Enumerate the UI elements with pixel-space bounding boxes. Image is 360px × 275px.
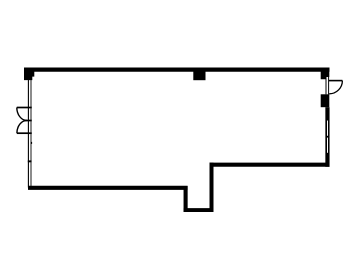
wire: top wall (24, 67, 330, 71)
window: right wall glazing gap lower (327, 138, 328, 153)
window: right wall glazing gap upper (327, 121, 328, 136)
door: right door swing arc (329, 81, 342, 94)
door: right door jamb outer line (325, 77, 327, 95)
door: left double door top leaf (17, 107, 32, 109)
node: right middle column (321, 94, 330, 107)
door: left double door lower swing arc (17, 120, 27, 133)
wire: left curtain wall inner line (30, 80, 32, 188)
node: left wall small mullion tick (31, 142, 32, 144)
wire: notch left vertical wall (184, 186, 188, 212)
door: left double door upper swing arc (17, 108, 27, 121)
wire: notch right vertical wall (210, 163, 214, 212)
door: left double door bottom leaf (17, 132, 32, 134)
wire: bottom wall of right section (210, 163, 330, 167)
wire: right wall (325, 107, 329, 167)
wire: notch bottom wall (184, 208, 214, 212)
node: top-middle column (193, 68, 205, 80)
door: right door jamb inner line (328, 77, 330, 95)
door: left double door middle stub (24, 120, 32, 122)
node: left wall mullion tick (28, 160, 32, 162)
wire: bottom wall of left section (28, 186, 188, 190)
door: right door leaf (329, 80, 342, 82)
node: top-left column (24, 68, 34, 80)
wire: left curtain wall outer line (27, 80, 29, 188)
node: top-right column (321, 68, 330, 80)
